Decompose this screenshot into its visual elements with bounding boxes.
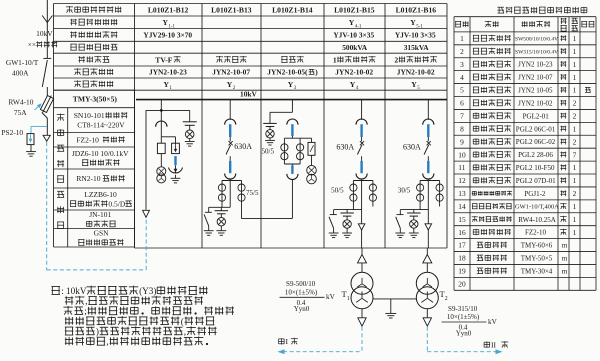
node: cable connector arrow (bay out)	[425, 224, 432, 248]
node: cable connector arrow below T1	[358, 309, 366, 326]
svg-text:: 10kV: : 10kV	[61, 286, 87, 296]
drawout contact upper	[225, 119, 236, 125]
node: label 50/5 (bay3)	[262, 147, 275, 155]
svg-text:1: 1	[347, 296, 350, 302]
ground (grounding switch)	[329, 233, 339, 238]
disconnect switch GW1-10/T 400A	[42, 58, 51, 96]
svg-text:1: 1	[573, 34, 577, 43]
svg-text:2: 2	[573, 99, 577, 108]
wire: cabinet equipment list box	[54, 90, 135, 247]
svg-text:LZZB6-10: LZZB6-10	[84, 190, 117, 199]
node: cabinet equipment list entries	[70, 111, 132, 245]
breaker truck stab lower (blue)	[360, 161, 362, 173]
node: vertical text 柜内主要电气设备	[57, 114, 65, 229]
svg-text:S9-315/10: S9-315/10	[448, 305, 478, 313]
node: cable connector arrow (incoming)	[43, 135, 50, 141]
capacitive indicator + lamp	[215, 207, 229, 230]
current transformer pair (right)	[238, 181, 245, 207]
svg-text:TMY-50×5: TMY-50×5	[521, 255, 553, 263]
svg-text:,: ,	[184, 327, 186, 337]
wire: bay output to transformer	[400, 181, 428, 224]
node: spec table data cells	[143, 5, 437, 91]
node: label 630A	[336, 143, 354, 152]
wire: switchgear bay enclosures	[135, 90, 448, 248]
svg-text:1: 1	[573, 215, 577, 224]
svg-text:JYN2-10-05(: JYN2-10-05(	[267, 68, 308, 77]
wire: transformer neutral link	[373, 299, 416, 313]
circuit breaker 630A	[357, 137, 364, 161]
svg-text:1: 1	[573, 163, 577, 172]
wire: CT branch split	[222, 179, 242, 181]
drawout contact upper	[356, 119, 367, 125]
svg-text:2: 2	[573, 137, 577, 146]
svg-text:75A: 75A	[14, 108, 27, 117]
svg-text:30/5: 30/5	[398, 186, 411, 194]
svg-text:11: 11	[458, 163, 465, 172]
wire: switchgear spec table grid	[54, 4, 448, 91]
svg-text:PGL2 07D-01: PGL2 07D-01	[516, 177, 556, 185]
lamp (bay3)	[266, 130, 274, 141]
svg-text:2: 2	[573, 189, 577, 198]
capacitive indicator + lamp	[340, 210, 354, 233]
svg-text:FZ2-10: FZ2-10	[525, 229, 547, 237]
capacitive indicator + lamp	[407, 210, 421, 233]
svg-text:JYN2 10-23: JYN2 10-23	[518, 61, 553, 69]
svg-text:PGL2 06C-02: PGL2 06C-02	[516, 138, 556, 146]
wire: T2 LV outgoing to section II (dashed)	[427, 327, 502, 354]
wire: 10kV overhead incoming line	[42, 0, 52, 58]
svg-text:S9-500/10: S9-500/10	[286, 280, 316, 288]
ground (bay1 arrester)	[171, 178, 181, 183]
svg-text:1: 1	[573, 47, 577, 56]
fuse RW4-10 75A (drop-out)	[40, 94, 55, 135]
svg-text:400A: 400A	[12, 69, 29, 78]
grounding switch	[329, 210, 337, 233]
svg-text:GSN: GSN	[94, 229, 110, 238]
breaker truck stab upper blue (bay3)	[291, 124, 293, 136]
svg-text:10: 10	[458, 150, 466, 159]
circuit breaker 630A	[226, 137, 233, 161]
current transformer pair (right)	[436, 181, 443, 207]
svg-text:1: 1	[460, 34, 464, 43]
voltage transformer (bay3 metering PT)	[307, 165, 317, 183]
svg-text:××: ××	[28, 41, 36, 49]
svg-text:5-1: 5-1	[416, 24, 423, 29]
svg-text:): )	[96, 327, 99, 337]
ground (lamp)	[342, 233, 352, 238]
node: cable connector arrow to T1	[358, 248, 367, 272]
svg-text:TMY-3(50×5): TMY-3(50×5)	[73, 95, 118, 104]
wire: bay output to transformer	[334, 181, 362, 224]
node: CT ratio label	[331, 186, 344, 194]
wire: bay drop from busbar	[427, 100, 429, 120]
svg-text:9: 9	[460, 137, 464, 146]
drawout contact lower	[225, 174, 236, 180]
wire: bay3 drop from busbar	[270, 100, 292, 113]
svg-text:13: 13	[458, 189, 466, 198]
svg-text:PGL2 10-F50: PGL2 10-F50	[516, 164, 555, 172]
arrester FZ2-10 (bay1)	[169, 156, 183, 178]
breaker truck stab upper (blue)	[360, 124, 362, 137]
svg-text:m: m	[562, 242, 568, 250]
svg-text:2: 2	[445, 296, 448, 302]
svg-text:315kVA: 315kVA	[404, 43, 430, 52]
current transformer pair (bay3 left)	[281, 138, 288, 164]
svg-text:L010Z1-B14: L010Z1-B14	[272, 5, 313, 14]
svg-text:5: 5	[460, 86, 464, 95]
wire: bay1 left feeder to cable connector	[145, 110, 147, 209]
svg-text:TMY-30×4: TMY-30×4	[521, 267, 553, 275]
node: label GW1-10/T 400A	[6, 58, 39, 78]
svg-text:1: 1	[573, 124, 577, 133]
capacitive indicator (bay3)	[263, 112, 277, 129]
node: equipment list table title	[497, 7, 586, 14]
svg-text:m: m	[562, 255, 568, 263]
svg-text:TV-F: TV-F	[155, 55, 173, 64]
svg-text:2: 2	[394, 55, 398, 64]
svg-text:m: m	[562, 267, 568, 275]
node: label PS2-10	[1, 128, 23, 137]
svg-text:JYN2-10-02: JYN2-10-02	[335, 68, 373, 77]
svg-text:RW4-10: RW4-10	[8, 97, 33, 106]
svg-text:1: 1	[573, 73, 577, 82]
svg-text:YJV-10 3×35: YJV-10 3×35	[395, 31, 436, 40]
lamp (bay1)	[185, 130, 194, 141]
svg-text:1: 1	[573, 176, 577, 185]
transformer T2 (wye-wye)	[416, 272, 438, 309]
busbar TMY-3(50x5) label	[73, 95, 118, 104]
svg-text:1: 1	[573, 202, 577, 211]
node: label 接I段	[279, 337, 298, 346]
svg-text:19: 19	[458, 267, 466, 276]
node: label 630A	[234, 142, 252, 151]
svg-text:630A: 630A	[403, 143, 421, 152]
svg-text:PGJ1-2: PGJ1-2	[524, 190, 546, 198]
svg-text:3: 3	[460, 60, 464, 69]
node: blue arrow at fuse	[35, 103, 42, 110]
svg-text:YJV29-10 3×70: YJV29-10 3×70	[143, 31, 192, 40]
svg-text:10kV: 10kV	[36, 29, 53, 38]
svg-text:1: 1	[573, 228, 577, 237]
svg-text:PGL2 28-06: PGL2 28-06	[518, 151, 553, 159]
svg-text:4: 4	[460, 73, 464, 82]
svg-text:(: (	[181, 316, 184, 326]
wire: equipment table grid	[454, 17, 596, 291]
node: label S9-500/10 spec	[280, 280, 336, 313]
svg-text:L010Z1-B13: L010Z1-B13	[211, 5, 252, 14]
wire: bay drop from busbar	[229, 100, 231, 120]
circuit breaker 630A	[424, 137, 431, 161]
svg-text:;: ;	[84, 306, 87, 316]
drawout contact (bay1)	[156, 110, 167, 136]
svg-text:12: 12	[458, 176, 466, 185]
svg-text:JYN2-10-02: JYN2-10-02	[397, 68, 435, 77]
node: CT ratio label	[398, 186, 411, 194]
svg-text:0.5/D: 0.5/D	[108, 200, 125, 209]
busbar 10kV TMY-3	[136, 99, 447, 101]
svg-text:JYN2-10-07: JYN2-10-07	[212, 68, 250, 77]
breaker truck stab lower (blue)	[427, 161, 429, 173]
drawout contact lower (bay3)	[287, 174, 298, 180]
node: CT ratio label	[246, 189, 259, 197]
svg-text:50/5: 50/5	[331, 186, 344, 194]
svg-text:1: 1	[573, 60, 577, 69]
svg-text:14: 14	[458, 202, 466, 211]
breaker truck stab upper (blue)	[229, 124, 231, 137]
wire: bay1 fuse branch	[161, 137, 175, 143]
current transformer pair (bay3 right)	[297, 138, 304, 164]
svg-text:2: 2	[573, 112, 577, 121]
node: label 630A	[403, 143, 421, 152]
transformer T1 (wye-wye)	[351, 272, 373, 309]
voltage transformer JDZ6-10 (bay1)	[157, 167, 166, 183]
node: equipment table header	[455, 18, 594, 31]
fuse with striker (bay1 arrester branch)	[172, 143, 180, 153]
svg-text:1: 1	[333, 55, 337, 64]
svg-text:16: 16	[458, 228, 466, 237]
svg-text:20: 20	[458, 280, 466, 289]
svg-text:7: 7	[573, 150, 577, 159]
svg-text:PGL2 06C-01: PGL2 06C-01	[516, 125, 556, 133]
svg-text:(Y3): (Y3)	[139, 286, 156, 296]
breaker truck stab lower blue (bay3)	[291, 165, 293, 174]
drawout contact lower	[423, 174, 434, 180]
ground (arrester PS2-10)	[26, 152, 36, 157]
current transformer pair (left)	[218, 181, 225, 207]
node: cable connector arrow to T2	[423, 248, 432, 272]
svg-text:75/5: 75/5	[246, 189, 259, 197]
svg-text:JYN2 10-05: JYN2 10-05	[518, 87, 553, 95]
svg-text:JN-101: JN-101	[89, 210, 111, 219]
wire: bay output to metering	[209, 181, 293, 219]
current transformer pair (left)	[417, 181, 424, 207]
svg-text:10×(1±5%): 10×(1±5%)	[285, 288, 318, 296]
svg-text:18: 18	[458, 254, 466, 263]
node: label S9-315/10 spec	[442, 305, 498, 338]
wire: bay3 CT rejoin	[284, 164, 300, 165]
drawout contact upper	[423, 119, 434, 125]
node: label T1	[342, 289, 350, 302]
svg-text:II: II	[491, 341, 497, 350]
ground (bay3 lamp)	[265, 140, 275, 145]
svg-text:SN10-101: SN10-101	[74, 111, 105, 120]
fuse RN2-10 (bay1 PT)	[157, 137, 165, 167]
svg-text:kV: kV	[326, 293, 336, 301]
wire: bay1 drop from busbar	[146, 100, 190, 112]
breaker truck stab lower (blue)	[229, 161, 231, 173]
svg-text:630A: 630A	[336, 143, 354, 152]
svg-text:GW1-10/T: GW1-10/T	[6, 58, 39, 67]
svg-text:50/5: 50/5	[262, 147, 275, 155]
svg-text:,: ,	[85, 296, 87, 306]
svg-text:RN2-10: RN2-10	[76, 174, 100, 183]
node: cable connector arrow (bay1)	[143, 210, 150, 217]
grounding switch	[396, 210, 404, 233]
wire: bay3 down to inter-bay link	[291, 179, 293, 218]
svg-text:JYN2 10-02: JYN2 10-02	[518, 99, 553, 107]
current transformer pair (right)	[369, 181, 376, 207]
svg-text:FZ2-10: FZ2-10	[76, 135, 99, 144]
svg-text:JDZ6-10 10/0.1kV: JDZ6-10 10/0.1kV	[72, 149, 129, 158]
node: equipment table rows	[458, 34, 590, 288]
node: footnote text	[51, 286, 234, 347]
svg-text:8: 8	[460, 124, 464, 133]
svg-text:Yyn0: Yyn0	[456, 330, 472, 338]
svg-text:6: 6	[460, 99, 464, 108]
svg-text:630A: 630A	[234, 142, 252, 151]
ground (grounding switch)	[204, 231, 214, 236]
current transformer pair (left)	[350, 181, 357, 207]
svg-text:CT8-114~220V: CT8-114~220V	[77, 121, 125, 130]
svg-text:RW4-10.25A: RW4-10.25A	[518, 216, 556, 224]
svg-text:YJV-10 3×35: YJV-10 3×35	[333, 31, 374, 40]
svg-text:Yyn0: Yyn0	[294, 305, 310, 313]
ground (grounding switch)	[395, 233, 405, 238]
svg-text:SW315/10/10/0.4V: SW315/10/10/0.4V	[515, 49, 558, 55]
svg-text:L010Z1-B15: L010Z1-B15	[334, 5, 375, 14]
svg-text:17: 17	[458, 241, 466, 250]
node: label RW4-10 75A	[8, 97, 33, 117]
node: spec table row labels	[66, 6, 121, 87]
breaker truck stab upper (blue)	[427, 124, 429, 137]
drawout contact lower	[356, 174, 367, 180]
wire: bay drop from busbar	[361, 100, 363, 120]
node: incoming line label 10kV ××架空线	[28, 29, 57, 49]
drawout contact upper (bay3)	[287, 119, 298, 125]
svg-text:10×(1±5%): 10×(1±5%)	[447, 313, 480, 321]
svg-text:GW1-10/T,400A: GW1-10/T,400A	[515, 204, 559, 211]
svg-text:PGL2-01: PGL2-01	[523, 112, 550, 120]
capacitive indicator (bay1 right)	[183, 110, 197, 130]
grounding switch	[204, 207, 212, 230]
svg-text:JYN2-10-23: JYN2-10-23	[149, 68, 187, 77]
wire: CT branch split	[353, 179, 373, 181]
svg-text:,: ,	[106, 337, 108, 347]
wire: incoming cable route (dashed)	[47, 142, 147, 270]
wire: bay3 CT split	[284, 136, 300, 138]
fuse branch (bay3 PT)	[300, 138, 315, 165]
wire: CT branch split	[420, 179, 440, 181]
svg-text:10kV: 10kV	[240, 89, 258, 98]
node: cable connector arrow below T2	[423, 309, 431, 326]
svg-text:PS2-10: PS2-10	[1, 128, 23, 137]
node: cable connector arrow (bay out)	[358, 224, 365, 248]
ground (lamp)	[216, 231, 226, 236]
svg-text:7: 7	[460, 112, 464, 121]
svg-text:L010Z1-B16: L010Z1-B16	[396, 5, 437, 14]
node: label T2	[440, 289, 448, 302]
node: label 接II段	[484, 341, 508, 350]
svg-text:500kVA: 500kVA	[342, 43, 368, 52]
svg-text:1: 1	[573, 86, 577, 95]
svg-text:SW500/10/10/0.4V: SW500/10/10/0.4V	[515, 36, 558, 42]
svg-text:15: 15	[458, 215, 466, 224]
wire: T1 LV outgoing to section I (dashed)	[278, 327, 363, 354]
svg-text:2: 2	[460, 47, 464, 56]
ground (lamp)	[409, 233, 419, 238]
svg-text:kV: kV	[488, 318, 498, 326]
ground (bay1 lamp)	[185, 142, 195, 147]
surge arrester PS2-10	[27, 126, 47, 151]
svg-text:L010Z1-B12: L010Z1-B12	[148, 5, 189, 14]
node: busbar voltage label 10kV	[240, 89, 258, 98]
svg-text:TMY-60×6: TMY-60×6	[521, 242, 553, 250]
svg-text:4-1: 4-1	[355, 24, 362, 29]
ground (transformer neutral)	[385, 313, 396, 318]
svg-text:1-1: 1-1	[168, 24, 175, 29]
svg-text:JYN2 10-07: JYN2 10-07	[518, 74, 553, 82]
